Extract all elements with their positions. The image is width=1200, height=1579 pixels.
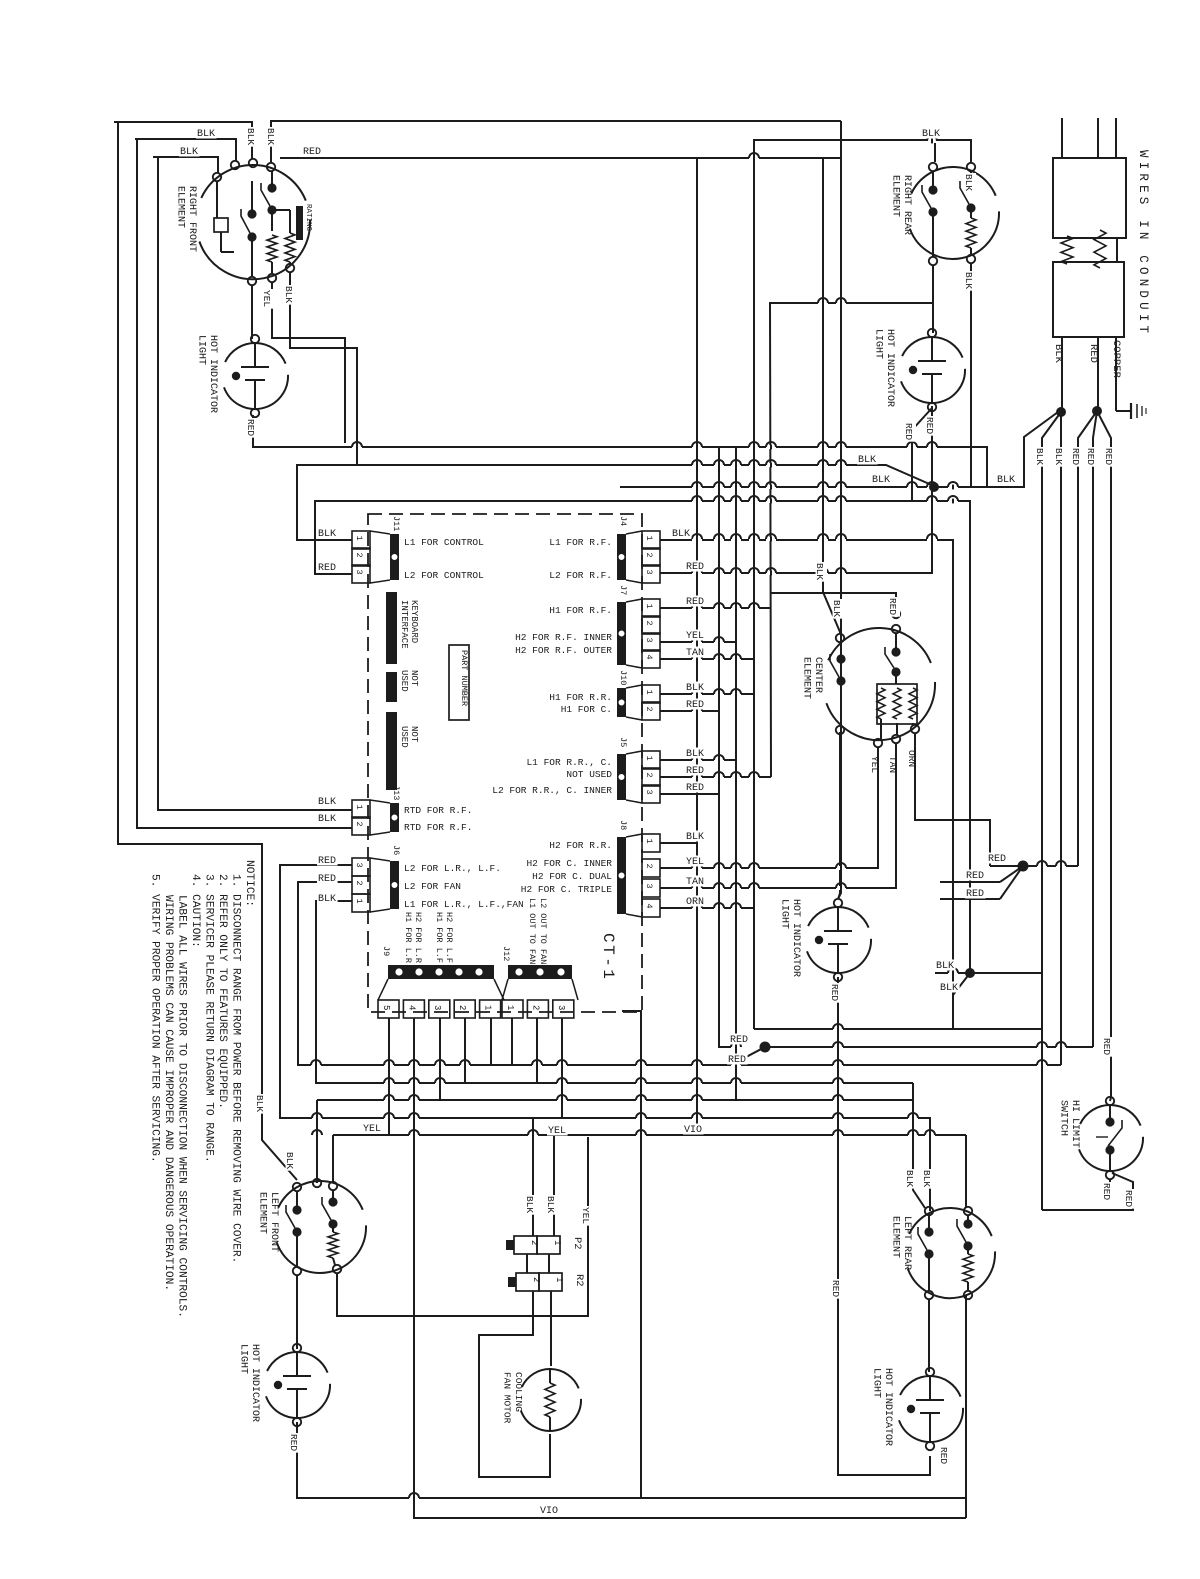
wire y866 slant 1 (1000, 866, 1023, 882)
wire crossover hops (311, 136, 1066, 1500)
svg-text:H2 FOR R.F. OUTER: H2 FOR R.F. OUTER (515, 645, 612, 656)
svg-text:BLK: BLK (524, 1196, 535, 1213)
svg-text:BLK: BLK (872, 475, 890, 486)
svg-text:H1 FOR R.F.: H1 FOR R.F. (549, 605, 612, 616)
right front element switch contacts 1a/2a (241, 181, 257, 277)
wire J6-3 RED drop to y1118 (280, 865, 930, 1211)
svg-text:HOT INDICATOR: HOT INDICATOR (884, 329, 895, 407)
svg-text:RED: RED (303, 147, 321, 158)
wire lamp TL RED collector (253, 415, 987, 487)
svg-text:HOT INDICATOR: HOT INDICATOR (882, 1368, 893, 1446)
label: CT-1 (599, 933, 617, 981)
wire BLK junction B fan right (970, 972, 1042, 974)
svg-text:ELEMENT: ELEMENT (890, 1216, 901, 1258)
svg-text:BLK: BLK (831, 600, 842, 617)
svg-text:YEL: YEL (686, 857, 704, 868)
wire LF elem YEL terminal (332, 1135, 334, 1182)
svg-text:BLK: BLK (265, 128, 276, 145)
svg-text:H2 FOR C. TRIPLE: H2 FOR C. TRIPLE (521, 884, 613, 895)
svg-text:R2: R2 (573, 1274, 585, 1287)
hot indicator light (right rear) (873, 329, 966, 411)
wire RED from RF element to harness (280, 157, 823, 159)
wire x641 riser (622, 1011, 641, 1498)
wire LR elem to BR lamp (928, 1299, 930, 1372)
svg-text:RED: RED (1103, 448, 1114, 465)
right front surface element (circle) (199, 165, 310, 279)
wire P2 to R2 links (526, 1254, 528, 1273)
wire J12-3 drop (561, 1018, 563, 1118)
svg-text:BLK: BLK (686, 832, 704, 843)
svg-text:NOT USED: NOT USED (566, 769, 612, 780)
connector J13 (RTD for R.F.) (352, 785, 472, 835)
wire P2-2 BLK drop (532, 1118, 534, 1236)
svg-text:2: 2 (531, 1277, 541, 1282)
svg-text:BLK: BLK (858, 455, 876, 466)
svg-text:RED: RED (1085, 448, 1096, 465)
wire left bus 2 to J13-2 (137, 139, 352, 828)
wire J9-3 drop (439, 1018, 441, 1100)
hot indicator light (center element) (779, 899, 872, 981)
wire center lamp bottom RED loop (838, 977, 930, 1475)
svg-text:BLK: BLK (318, 814, 336, 825)
left front element contacts b (322, 1190, 338, 1229)
wire hi-limit top RED (1110, 1097, 1111, 1101)
wire P2-1 BLK drop (553, 1135, 555, 1236)
hi limit switch contacts (1096, 1105, 1122, 1171)
right front element switch contacts 1b/2b (261, 171, 277, 231)
connector J12 (fan output) (501, 898, 578, 1018)
svg-text:3: 3 (644, 638, 654, 643)
wire lamp TR RED slant (912, 408, 932, 501)
wire bus x719 (719, 447, 731, 1047)
svg-text:BLK: BLK (1034, 448, 1045, 465)
wire x913 y1100 junction (912, 1083, 914, 1100)
wire J8-3 TAN to center elem (660, 743, 896, 888)
svg-text:1: 1 (505, 1005, 515, 1010)
svg-text:1: 1 (354, 805, 364, 810)
svg-text:RED: RED (686, 766, 704, 777)
hot indicator light (left front) (238, 1344, 331, 1426)
left front element contacts a (286, 1191, 302, 1267)
svg-text:INTERFACE: INTERFACE (399, 600, 409, 649)
right front element limiter box (214, 181, 234, 252)
wire J8-2 YEL to center elem (660, 747, 878, 868)
svg-text:BLK: BLK (940, 983, 958, 994)
svg-text:RED: RED (288, 1434, 299, 1451)
svg-text:3: 3 (432, 1005, 442, 1010)
svg-text:4. CAUTION:: 4. CAUTION: (189, 874, 201, 948)
BLK power junction (1042, 337, 1066, 1210)
svg-text:RED: RED (887, 598, 898, 615)
wire bus x771 and y303 feed (770, 303, 934, 777)
wire RF elem YEL run (272, 282, 345, 443)
svg-text:BLK: BLK (284, 1152, 295, 1169)
svg-text:RED: RED (966, 889, 984, 900)
svg-text:HOT INDICATOR: HOT INDICATOR (207, 335, 218, 413)
svg-text:RED: RED (686, 700, 704, 711)
svg-text:4: 4 (644, 904, 654, 909)
wire mid RED junction feed (731, 1047, 765, 1065)
svg-text:2: 2 (457, 1005, 467, 1010)
left rear element contacts b (957, 1215, 973, 1251)
wire J7-3 YEL (660, 641, 736, 643)
RED power junction (1078, 337, 1111, 1097)
svg-text:RED: RED (966, 871, 984, 882)
svg-text:LABEL ALL WIRES PRIOR TO DISCO: LABEL ALL WIRES PRIOR TO DISCONNECTION W… (176, 895, 188, 1318)
svg-text:L2 FOR R.R., C. INNER: L2 FOR R.R., C. INNER (492, 785, 612, 796)
connector J5 (L1/L2 for R.R. C.) (492, 737, 660, 803)
svg-text:BLK: BLK (545, 1196, 556, 1213)
wire BL lamp RED bottom (297, 1422, 966, 1498)
svg-text:BLK: BLK (922, 129, 940, 140)
wire J10-2 RED (660, 710, 719, 712)
wire right rear feed line y140 (754, 140, 971, 1029)
wire RED net to hi-limit branch (765, 1046, 1093, 1048)
svg-text:LEFT REAR: LEFT REAR (901, 1216, 912, 1270)
svg-text:RED: RED (318, 874, 336, 885)
svg-text:RATING: RATING (304, 204, 312, 232)
svg-text:CENTER: CENTER (812, 657, 823, 693)
svg-text:BLK: BLK (686, 683, 704, 694)
svg-text:BLK: BLK (814, 563, 825, 580)
wire J8-1 BLK (660, 842, 697, 844)
svg-text:LIGHT: LIGHT (238, 1344, 249, 1374)
power terminal block lower (1053, 262, 1124, 337)
wire bus x697 (696, 158, 698, 1135)
wire net BLK mid (620, 412, 1058, 487)
connector J7 (H1/H2 for R.F.) (515, 585, 660, 668)
svg-text:BLK: BLK (197, 129, 215, 140)
svg-text:1: 1 (644, 690, 654, 695)
svg-text:RED: RED (686, 562, 704, 573)
svg-text:L2 OUT TO FAN: L2 OUT TO FAN (538, 898, 548, 964)
svg-text:H2 FOR C. DUAL: H2 FOR C. DUAL (532, 871, 612, 882)
connector J11 (L1/L2 for control) (352, 516, 484, 583)
svg-text:3: 3 (644, 570, 654, 575)
left front surface element (circle) (277, 1181, 366, 1273)
right rear element terminals (929, 163, 975, 265)
cooling fan motor (circle) (521, 1369, 581, 1431)
right front element terminals (213, 159, 294, 285)
svg-text:H2 FOR L.R.: H2 FOR L.R. (413, 912, 423, 968)
svg-text:1: 1 (483, 1005, 493, 1010)
label: COOLING FAN MOTOR (502, 1372, 525, 1424)
svg-text:BLK: BLK (904, 1170, 915, 1187)
svg-text:1: 1 (354, 899, 364, 904)
svg-text:ELEMENT: ELEMENT (175, 186, 186, 228)
svg-text:CT-1: CT-1 (599, 933, 617, 981)
svg-text:BLK: BLK (318, 894, 336, 905)
wire RR elem to TR lamp (932, 265, 934, 333)
svg-text:RTD FOR R.F.: RTD FOR R.F. (404, 805, 472, 816)
svg-text:RED: RED (903, 423, 914, 440)
conduit fusible links (1061, 230, 1117, 268)
svg-text:3: 3 (354, 570, 364, 575)
electronic oven control board CT-1 (dashed outline) (368, 514, 642, 1012)
wire y882 stub (940, 881, 1000, 883)
svg-text:J13: J13 (391, 785, 401, 800)
wire J5-2 RED (660, 776, 771, 778)
svg-text:RTD FOR R.F.: RTD FOR R.F. (404, 822, 472, 833)
right rear element contacts b (960, 171, 976, 213)
svg-text:TAN: TAN (686, 648, 704, 659)
wire J10-1 BLK (660, 693, 754, 695)
svg-text:L2 FOR CONTROL: L2 FOR CONTROL (404, 570, 484, 581)
svg-text:BLK: BLK (283, 286, 294, 303)
wire J5-3 RED (660, 793, 719, 795)
center element wire labels YEL TAN ORN (869, 750, 917, 773)
wire y866 slant 2 (1000, 866, 1023, 899)
svg-text:H1 FOR R.R.: H1 FOR R.R. (549, 692, 612, 703)
keyboard interface header (386, 592, 419, 664)
wire J9-1 drop (490, 1018, 492, 1065)
wire hi-limit bottom loop (1042, 1173, 1133, 1210)
label: WIRES IN CONDUIT (1136, 150, 1150, 337)
not used header 2 (386, 712, 419, 790)
svg-text:RED: RED (318, 856, 336, 867)
svg-text:2: 2 (529, 1240, 539, 1245)
svg-text:BLK: BLK (686, 749, 704, 760)
svg-text:RED: RED (686, 597, 704, 608)
svg-text:RED: RED (1123, 1190, 1134, 1207)
svg-text:H2 FOR C. INNER: H2 FOR C. INNER (526, 858, 612, 869)
svg-text:RED: RED (686, 783, 704, 794)
power terminal block upper (1053, 158, 1126, 238)
svg-text:LIGHT: LIGHT (196, 335, 207, 365)
svg-text:YEL: YEL (580, 1207, 591, 1224)
svg-text:1: 1 (644, 536, 654, 541)
svg-text:J12: J12 (501, 946, 511, 961)
label: HI LIMIT SWITCH (1058, 1100, 1081, 1148)
svg-text:1: 1 (644, 756, 654, 761)
svg-text:1: 1 (644, 604, 654, 609)
connector P2 (506, 1236, 583, 1254)
wire left bus 1 to x262 drop (118, 122, 297, 1180)
svg-text:H1 FOR L.R.: H1 FOR L.R. (403, 912, 413, 968)
svg-text:L2 FOR L.R., L.F.: L2 FOR L.R., L.F. (404, 863, 501, 874)
hi limit switch terminals (1106, 1097, 1114, 1179)
svg-text:J4: J4 (618, 516, 628, 526)
connector J6 (L1/L2 for L.R. L.F. fan) (352, 845, 524, 912)
svg-text:BLK: BLK (921, 1170, 932, 1187)
svg-text:BLK: BLK (936, 961, 954, 972)
svg-text:RED: RED (924, 417, 935, 434)
svg-text:ELEMENT: ELEMENT (801, 657, 812, 699)
svg-text:2: 2 (644, 621, 654, 626)
svg-text:ORN: ORN (686, 897, 704, 908)
wire LF elem mid terminal drop (316, 1100, 318, 1183)
wire RF elem BLK run (290, 272, 357, 465)
wire top bus 3 BLK (153, 157, 218, 173)
svg-text:RED: RED (938, 1447, 949, 1464)
right front element trim resistor (272, 210, 295, 264)
svg-text:J5: J5 (618, 737, 628, 747)
svg-text:J10: J10 (618, 670, 628, 685)
svg-text:RED: RED (1101, 1183, 1112, 1200)
svg-text:ELEMENT: ELEMENT (257, 1192, 268, 1234)
center element contacts a (830, 642, 846, 899)
label: CENTER ELEMENT (801, 657, 824, 699)
junction dot RED right (1018, 861, 1029, 872)
wire J9-4 drop VIO (414, 1018, 966, 1518)
svg-text:SWITCH: SWITCH (1058, 1100, 1069, 1136)
svg-text:BLK: BLK (318, 797, 336, 808)
wire top bus 1 BLK (114, 122, 252, 159)
center element resistor box (877, 676, 917, 739)
wire J7-1 RED (660, 607, 771, 609)
svg-text:COOLING: COOLING (513, 1372, 524, 1412)
connector J8 (H2 for R.R. / C.) (521, 820, 660, 917)
svg-text:2: 2 (354, 553, 364, 558)
wire left bus 3 to J13-1 (158, 157, 352, 810)
svg-text:BLK: BLK (180, 147, 198, 158)
wire y1029 run (754, 1028, 1042, 1030)
wire BLK junction B to x953 (953, 973, 970, 995)
svg-text:3: 3 (556, 1005, 566, 1010)
wire bus x736 (735, 447, 737, 1100)
wire y1135 YEL bus (333, 1134, 966, 1136)
svg-text:H1 FOR C.: H1 FOR C. (561, 704, 612, 715)
svg-text:L2 FOR FAN: L2 FOR FAN (404, 881, 461, 892)
svg-text:J6: J6 (391, 845, 401, 855)
right rear element coil resistor (966, 212, 976, 255)
svg-text:L1 FOR R.R., C.: L1 FOR R.R., C. (526, 757, 612, 768)
svg-text:LIGHT: LIGHT (779, 899, 790, 929)
svg-text:RED: RED (1101, 1038, 1112, 1055)
svg-text:J7: J7 (618, 585, 628, 595)
svg-text:BLK: BLK (963, 272, 974, 289)
right front element rating bar (296, 204, 312, 240)
svg-text:L1 FOR R.F.: L1 FOR R.F. (549, 537, 612, 548)
svg-text:BLK: BLK (1053, 448, 1064, 465)
wire x966 to LR elem top (965, 1135, 967, 1208)
svg-text:4: 4 (644, 655, 654, 660)
svg-text:YEL: YEL (548, 1126, 566, 1137)
svg-text:P2: P2 (571, 1237, 583, 1250)
svg-text:H2 FOR R.R.: H2 FOR R.R. (549, 840, 612, 851)
wire TR lamp to J4-3 RED (660, 406, 932, 573)
svg-text:1: 1 (644, 839, 654, 844)
wire RR elem bottom right drop BLK (970, 263, 972, 487)
wire J4-1 BLK (660, 539, 953, 541)
svg-text:RIGHT FRONT: RIGHT FRONT (186, 186, 197, 252)
wire y866 RED (990, 865, 1078, 867)
wires into conduit (1062, 118, 1116, 158)
copper ground lead (1115, 337, 1117, 411)
svg-text:TAN: TAN (686, 877, 704, 888)
relay R2 (508, 1273, 585, 1291)
svg-text:2: 2 (644, 773, 654, 778)
left rear element terminals (925, 1207, 972, 1299)
svg-text:RED: RED (728, 1055, 746, 1066)
wire J7-4 TAN drop (660, 658, 754, 660)
svg-text:4: 4 (406, 1005, 416, 1010)
wire x953 drop (952, 539, 954, 1029)
svg-text:NOT: NOT (409, 726, 419, 743)
part number box (449, 645, 469, 720)
wire RF elem bottom to lamp (251, 285, 253, 339)
wire J6-1 BLK drop to y1083 (316, 901, 913, 1083)
wire BLK junction B fan left (935, 972, 970, 974)
junction dot RED mid (760, 1042, 771, 1053)
wire RF element T4 to top line (271, 121, 841, 163)
svg-text:2: 2 (530, 1005, 540, 1010)
svg-text:WIRING PROBLEMS CAN CAUSE IMP: WIRING PROBLEMS CAN CAUSE IMPROPER AND D… (162, 895, 174, 1291)
svg-text:HOT INDICATOR: HOT INDICATOR (249, 1344, 260, 1422)
junction dot BLK right (965, 968, 975, 978)
svg-text:NOTICE:: NOTICE: (243, 860, 255, 907)
svg-text:RIGHT REAR: RIGHT REAR (901, 175, 912, 235)
wire J8-4 ORN (660, 907, 754, 909)
right rear surface element (circle) (910, 167, 999, 259)
wire y158 stub to x841 (823, 157, 841, 159)
svg-text:BLK: BLK (318, 529, 336, 540)
svg-text:1. DISCONNECT RANGE FROM POWER: 1. DISCONNECT RANGE FROM POWER BEFORE RE… (230, 874, 242, 1263)
wire J6-2 RED drop to y1065 (298, 882, 1061, 1065)
svg-text:BLK: BLK (997, 475, 1015, 486)
not used header 1 (386, 670, 419, 702)
svg-text:L1 OUT TO FAN: L1 OUT TO FAN (527, 898, 537, 964)
svg-text:RED: RED (988, 854, 1006, 865)
svg-text:KEYBOARD: KEYBOARD (409, 600, 419, 643)
svg-text:J11: J11 (391, 516, 401, 531)
svg-text:1: 1 (354, 536, 364, 541)
svg-text:LIGHT: LIGHT (873, 329, 884, 359)
hot indicator light (left rear) (871, 1368, 964, 1450)
connector J9 (surface element outputs) (378, 912, 504, 1018)
hot indicator light (left oven front) (196, 335, 289, 417)
label: RIGHT REAR ELEMENT (890, 175, 913, 235)
wire center elem ORN run (915, 733, 990, 866)
wire hi-limit bottom RED (1109, 1179, 1111, 1190)
svg-text:BLK: BLK (672, 529, 690, 540)
wire color labels (vertical) (245, 127, 1136, 1466)
svg-text:3: 3 (644, 790, 654, 795)
svg-text:VIO: VIO (540, 1506, 558, 1517)
hi limit switch (circle) (1079, 1105, 1143, 1171)
wire LF elem to BL lamp (296, 1275, 298, 1349)
svg-text:LIGHT: LIGHT (871, 1368, 882, 1398)
svg-text:USED: USED (399, 670, 409, 692)
wire YEL mid drop (337, 1137, 588, 1316)
left rear surface element (circle) (908, 1208, 995, 1298)
svg-text:1: 1 (552, 1240, 562, 1245)
svg-text:L1 FOR L.R., L.F.,FAN: L1 FOR L.R., L.F.,FAN (404, 899, 524, 910)
conduit lead labels (1052, 340, 1122, 379)
svg-text:USED: USED (399, 726, 409, 748)
svg-text:BLK: BLK (254, 1095, 265, 1112)
svg-text:2: 2 (354, 881, 364, 886)
wire J11-3 RED run (315, 501, 970, 971)
svg-text:1: 1 (554, 1277, 564, 1282)
svg-text:HI LIMIT: HI LIMIT (1069, 1100, 1080, 1148)
svg-text:H1 FOR L.F.: H1 FOR L.F. (434, 912, 444, 968)
label: RIGHT FRONT ELEMENT (175, 186, 198, 252)
svg-text:VIO: VIO (684, 1125, 702, 1136)
svg-text:5: 5 (381, 1005, 391, 1010)
svg-text:3: 3 (644, 884, 654, 889)
wire center elem top link (771, 593, 896, 610)
svg-text:ELEMENT: ELEMENT (890, 175, 901, 217)
connector J4 (L1/L2 for R.F.) (549, 516, 660, 583)
svg-text:J8: J8 (618, 820, 628, 830)
connector J10 (H1 for R.R. / C.) (549, 670, 660, 720)
svg-text:3. SERVICER PLEASE RETURN DIAG: 3. SERVICER PLEASE RETURN DIAGRAM TO RAN… (203, 874, 215, 1163)
svg-text:L1 FOR CONTROL: L1 FOR CONTROL (404, 537, 484, 548)
svg-text:HOT INDICATOR: HOT INDICATOR (790, 899, 801, 977)
wire J9-2 drop (464, 1018, 466, 1083)
svg-text:2: 2 (644, 707, 654, 712)
